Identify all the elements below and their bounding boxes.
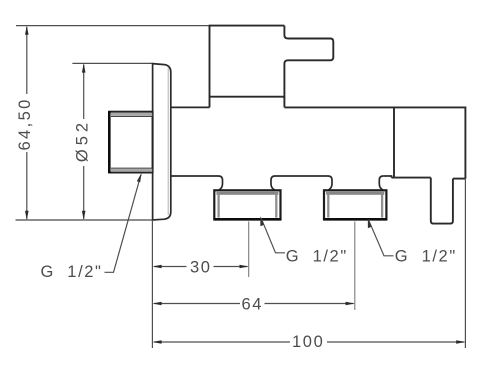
port 1 bottom thick xyxy=(214,218,282,221)
down stub xyxy=(431,178,453,224)
left edge xyxy=(393,107,395,177)
leader 1 arrow xyxy=(137,173,142,182)
inlet thread bottom inner line xyxy=(111,167,152,169)
bottom face extension line xyxy=(16,219,153,221)
dimension Ø52 vertical line xyxy=(83,65,85,220)
extension line port2 center xyxy=(354,222,356,311)
between ports xyxy=(275,176,332,190)
leader 3 arrow xyxy=(368,218,372,228)
port 2 thread side lines xyxy=(327,193,329,218)
extension line right face xyxy=(464,179,466,348)
flange inner chamfer line xyxy=(167,68,169,215)
svg-text:64: 64 xyxy=(242,296,264,314)
svg-text:G 1/2": G 1/2" xyxy=(41,263,103,281)
top extension line xyxy=(16,25,210,27)
dimension 64 arrows xyxy=(152,302,354,306)
dimension 100 arrows xyxy=(152,340,465,344)
port 2 bottom thick xyxy=(323,218,387,221)
leader 3 (port2) xyxy=(369,220,394,256)
dimension 30 arrows xyxy=(152,265,248,269)
port 2 thread top band xyxy=(326,192,384,195)
side stub xyxy=(288,39,333,61)
bottom right segment xyxy=(453,178,466,180)
body top line left xyxy=(171,106,210,108)
inlet thread top inner line xyxy=(111,115,152,117)
port 2 (bottom outlet) xyxy=(324,190,386,219)
dimension 100 line xyxy=(154,341,464,343)
dimension 64,50 arrows xyxy=(25,26,29,220)
flange to port1 neck xyxy=(171,176,223,190)
svg-text:100: 100 xyxy=(292,333,324,351)
inlet thread block G 1/2 xyxy=(109,112,152,173)
leader 1 (inlet) xyxy=(105,175,142,273)
leader 2 (port1) xyxy=(261,218,285,253)
top edge xyxy=(210,25,285,27)
svg-text:30: 30 xyxy=(190,259,212,277)
right edge lower xyxy=(284,60,288,107)
right edge xyxy=(464,107,466,179)
dimension 64 line xyxy=(154,303,354,305)
port 1 thread side lines xyxy=(217,193,219,218)
inlet thread top band xyxy=(111,113,152,116)
inlet block left edge thick xyxy=(108,111,111,173)
dimension 64,50 vertical line xyxy=(26,27,28,219)
leader 2 arrow xyxy=(260,216,264,226)
dimension 30 line xyxy=(154,266,248,268)
svg-text:G 1/2": G 1/2" xyxy=(395,247,457,265)
extension line below flange face xyxy=(151,221,153,348)
port2 to right block xyxy=(383,176,391,178)
port1 neck right fillet xyxy=(271,176,275,190)
svg-text:Ø52: Ø52 xyxy=(73,119,91,162)
body bottom line segments with port neck fillets xyxy=(171,176,392,190)
diameter 52 top extension line xyxy=(72,62,152,64)
dimension Ø52 arrows xyxy=(82,63,86,220)
port 1 thread top band xyxy=(216,192,278,195)
wall flange outline xyxy=(153,64,171,220)
body top line right xyxy=(284,106,465,108)
right edge upper xyxy=(284,26,288,39)
port 1 (bottom outlet) xyxy=(214,190,280,219)
extension line port1 center xyxy=(248,222,250,278)
top port block xyxy=(210,25,334,108)
inlet thread bottom band xyxy=(111,169,152,172)
bottom left segment xyxy=(392,177,431,179)
bottom ledge xyxy=(210,97,285,99)
port2 neck right fillet xyxy=(379,176,383,190)
right block xyxy=(392,107,466,224)
left edge xyxy=(209,25,211,108)
svg-text:64,50: 64,50 xyxy=(16,97,34,150)
svg-text:G 1/2": G 1/2" xyxy=(286,247,348,265)
